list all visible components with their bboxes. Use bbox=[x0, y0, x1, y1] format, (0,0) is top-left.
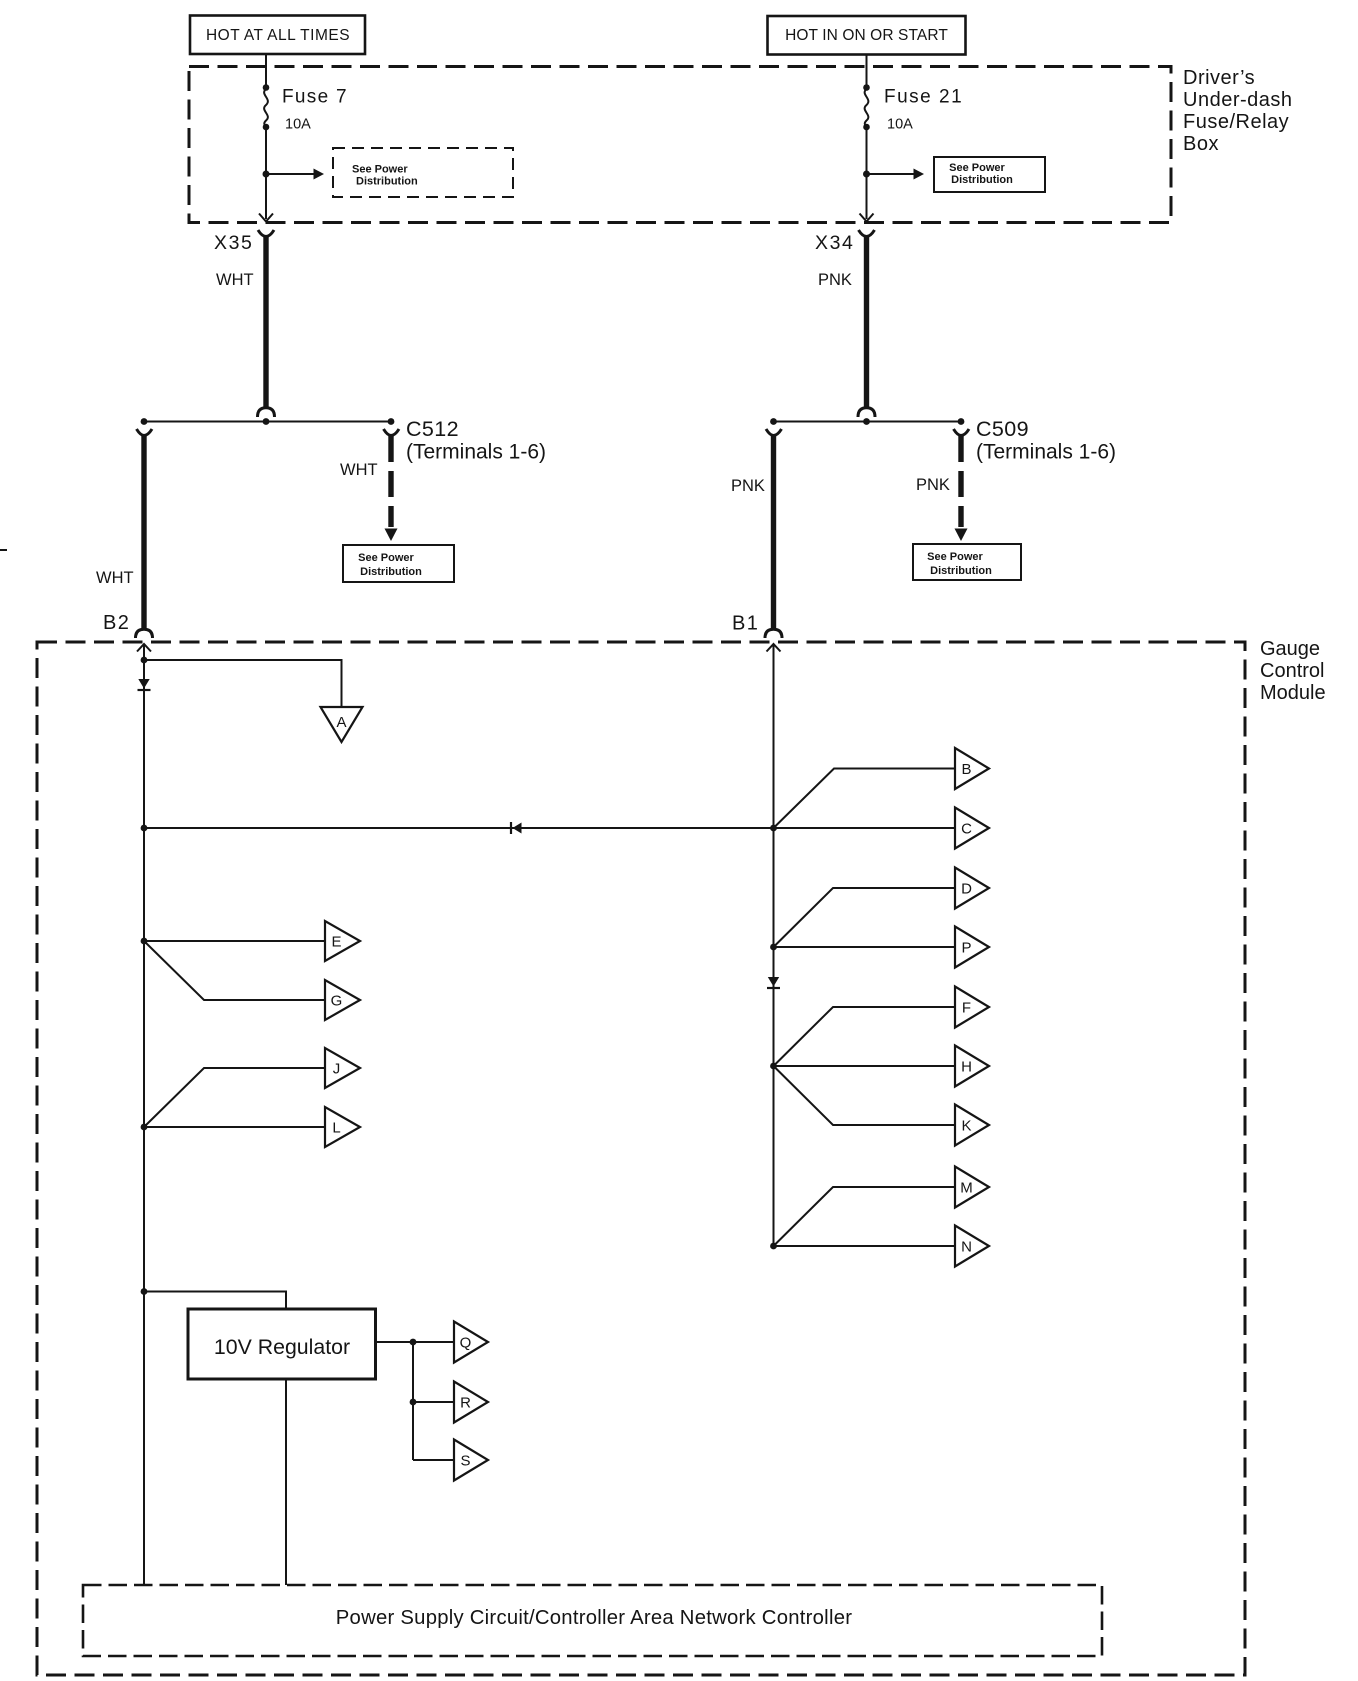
svg-text:N: N bbox=[961, 1239, 972, 1256]
svg-text:PNK: PNK bbox=[916, 476, 950, 494]
terminal G (triangle) bbox=[325, 980, 360, 1020]
svg-text:See Power: See Power bbox=[358, 552, 414, 564]
svg-text:WHT: WHT bbox=[96, 569, 134, 587]
svg-text:Driver’s: Driver’s bbox=[1183, 67, 1255, 89]
connector B2 mate (arc) bbox=[136, 629, 153, 638]
junction left rail / B2 drop bbox=[141, 418, 148, 425]
See Power Distribution box (below C509) bbox=[913, 544, 1021, 580]
terminal A (triangle) bbox=[321, 707, 363, 742]
svg-text:(Terminals 1-6): (Terminals 1-6) bbox=[406, 441, 546, 464]
svg-text:G: G bbox=[331, 993, 343, 1010]
svg-text:Distribution: Distribution bbox=[360, 566, 422, 578]
wire: branch to terminal A bbox=[144, 660, 342, 707]
stray scan mark left margin bbox=[0, 549, 7, 551]
wire: long horizontal net at y=828 bbox=[144, 827, 955, 829]
svg-text:S: S bbox=[460, 1453, 470, 1470]
terminal F (triangle) bbox=[955, 987, 989, 1028]
label Gauge Control Module bbox=[1260, 638, 1326, 704]
junction left rail / C512 bbox=[388, 418, 395, 425]
terminal S (triangle) bbox=[454, 1440, 488, 1481]
svg-text:Distribution: Distribution bbox=[930, 565, 992, 577]
svg-text:F: F bbox=[962, 1000, 971, 1017]
svg-text:Module: Module bbox=[1260, 682, 1326, 704]
arrowhead leaving fuse box at X34 bbox=[860, 214, 874, 222]
junction QRS bus / R bbox=[410, 1399, 417, 1406]
Power Supply Circuit/Controller Area Network Controller (dashed box) bbox=[83, 1585, 1102, 1656]
svg-text:10V Regulator: 10V Regulator bbox=[214, 1335, 350, 1359]
terminal E (triangle) bbox=[325, 921, 360, 961]
wire C509 dashed thick bbox=[958, 436, 963, 527]
connector below rail for B2 wire (Y) bbox=[137, 429, 153, 436]
wire: branch to terminal F bbox=[774, 1007, 956, 1066]
svg-text:J: J bbox=[333, 1061, 341, 1078]
junction B2 bus / J,L bbox=[141, 1124, 148, 1131]
connector X35 mate (arc) bbox=[258, 408, 275, 417]
arrowhead entering module at B2 bbox=[137, 644, 151, 652]
wire: branch to terminal S bbox=[413, 1459, 454, 1461]
wire: branch to terminal B bbox=[774, 769, 956, 829]
label box HOT IN ON OR START bbox=[768, 16, 966, 55]
wire: branch to terminal M bbox=[774, 1187, 956, 1246]
junction B1 bus / M,N bbox=[770, 1243, 777, 1250]
node: fuse 21 top terminal bbox=[863, 84, 870, 91]
diode D2 in long net (pointing left) bbox=[511, 822, 522, 834]
svg-text:C512: C512 bbox=[406, 417, 459, 441]
svg-text:Distribution: Distribution bbox=[356, 176, 418, 188]
connector X35 (female Y) bbox=[258, 230, 274, 237]
junction on fuse 7 output bbox=[263, 171, 270, 178]
svg-text:B2: B2 bbox=[103, 612, 130, 634]
svg-text:D: D bbox=[961, 881, 972, 898]
10V Regulator U1 bbox=[188, 1309, 376, 1379]
svg-text:HOT AT ALL TIMES: HOT AT ALL TIMES bbox=[206, 27, 350, 44]
terminal K (triangle) bbox=[955, 1105, 989, 1146]
svg-text:HOT IN ON OR START: HOT IN ON OR START bbox=[785, 27, 948, 44]
wire: B1 main vertical bus bbox=[773, 644, 775, 1246]
svg-text:PNK: PNK bbox=[818, 271, 852, 289]
svg-text:M: M bbox=[960, 1180, 973, 1197]
svg-text:Under-dash: Under-dash bbox=[1183, 89, 1293, 111]
See Power Distribution box (solid, right) bbox=[934, 157, 1045, 192]
terminal C (triangle) bbox=[955, 808, 989, 849]
arrowhead to See Power Distribution (C509) bbox=[955, 529, 968, 542]
wire: feed from HOT AT ALL TIMES into fuse 7 bbox=[265, 54, 267, 88]
junction right rail / X34 bbox=[863, 418, 870, 425]
junction regulator output / QRS bus bbox=[410, 1339, 417, 1346]
svg-text:Distribution: Distribution bbox=[951, 174, 1013, 186]
fuse F7 element (wavy symbol) bbox=[264, 89, 268, 127]
terminal D (triangle) bbox=[955, 868, 989, 909]
svg-text:P: P bbox=[961, 940, 971, 957]
module box: Gauge Control Module (dashed enclosure) bbox=[37, 642, 1245, 1675]
arrowhead to See Power Distribution (C512) bbox=[385, 529, 398, 542]
svg-text:Fuse 7: Fuse 7 bbox=[282, 87, 348, 108]
arrowhead leaving fuse box at X35 bbox=[259, 214, 273, 222]
wire: fuse 21 output down bbox=[866, 127, 868, 219]
svg-text:10A: 10A bbox=[285, 117, 311, 133]
connector B1 mate (arc) bbox=[765, 629, 782, 638]
svg-text:X34: X34 bbox=[815, 232, 855, 254]
svg-text:E: E bbox=[331, 934, 341, 951]
node: fuse 7 top terminal bbox=[263, 84, 270, 91]
junction right rail / B1 drop bbox=[770, 418, 777, 425]
wire: branch to terminal E bbox=[144, 940, 325, 942]
terminal R (triangle) bbox=[454, 1382, 488, 1423]
terminal J (triangle) bbox=[325, 1048, 360, 1088]
wire PNK to B1 (thick) bbox=[771, 436, 776, 630]
svg-text:(Terminals 1-6): (Terminals 1-6) bbox=[976, 441, 1116, 464]
connector below rail for B1 wire (Y) bbox=[766, 429, 782, 436]
terminal B (triangle) bbox=[955, 748, 989, 789]
wire WHT to B2 (thick) bbox=[141, 436, 146, 630]
diode D3 on B1 bus bbox=[767, 977, 780, 988]
fuse F21 element (wavy symbol) bbox=[865, 89, 869, 127]
wire: regulator ground to power supply circuit bbox=[285, 1379, 287, 1585]
svg-text:Control: Control bbox=[1260, 660, 1324, 682]
svg-text:K: K bbox=[961, 1118, 971, 1135]
See Power Distribution box (dashed, left) bbox=[333, 148, 513, 197]
junction B1 bus / B,C bbox=[770, 825, 777, 832]
wire: regulator output bbox=[376, 1341, 455, 1343]
svg-text:Fuse/Relay: Fuse/Relay bbox=[1183, 111, 1289, 133]
wire: branch to terminal G bbox=[144, 941, 325, 1000]
terminal H (triangle) bbox=[955, 1046, 989, 1087]
wire X35 thick feed bbox=[263, 237, 268, 409]
svg-text:Power Supply Circuit/Controlle: Power Supply Circuit/Controller Area Net… bbox=[336, 1607, 852, 1629]
svg-text:See Power: See Power bbox=[949, 162, 1005, 174]
junction B2 bus / E,G bbox=[141, 938, 148, 945]
label box HOT AT ALL TIMES bbox=[190, 16, 365, 55]
svg-text:H: H bbox=[961, 1059, 972, 1076]
junction long net / B2 bus bbox=[141, 825, 148, 832]
wire: branch to terminal H bbox=[774, 1065, 956, 1067]
wire C512 dashed thick bbox=[388, 436, 393, 527]
terminal M (triangle) bbox=[955, 1167, 989, 1208]
connector X34 mate (arc) bbox=[858, 408, 875, 417]
wire: feed from HOT IN ON OR START into fuse 21 bbox=[866, 55, 868, 88]
node: fuse 21 bottom terminal bbox=[863, 124, 870, 131]
wire: arrow to See Power Distribution (left) bbox=[266, 173, 314, 175]
junction B1 bus / D,P bbox=[770, 944, 777, 951]
wire: branch to terminal D bbox=[774, 888, 956, 947]
wire: QRS vertical bus bbox=[412, 1342, 414, 1460]
svg-text:PNK: PNK bbox=[731, 477, 765, 495]
diode D1 on B2 bus bbox=[138, 679, 151, 690]
connector X34 (female Y) bbox=[859, 230, 875, 237]
svg-text:R: R bbox=[460, 1395, 471, 1412]
wire: branch to terminal J bbox=[144, 1068, 325, 1127]
junction B1 bus / F,H,K bbox=[770, 1063, 777, 1070]
svg-text:10A: 10A bbox=[887, 117, 913, 133]
svg-text:B1: B1 bbox=[732, 613, 759, 635]
svg-text:B: B bbox=[961, 761, 971, 778]
wire: branch to terminal L bbox=[144, 1126, 325, 1128]
terminal L (triangle) bbox=[325, 1107, 360, 1147]
svg-text:WHT: WHT bbox=[340, 461, 378, 479]
See Power Distribution box (below C512) bbox=[343, 545, 454, 582]
wire: left distribution rail bbox=[144, 421, 391, 423]
svg-text:C: C bbox=[961, 821, 972, 838]
svg-text:L: L bbox=[332, 1120, 340, 1137]
wire: fuse 7 output down bbox=[265, 127, 267, 219]
connector below rail C512 (Y) bbox=[384, 429, 400, 436]
wire X34 thick feed bbox=[864, 237, 869, 409]
terminal Q (triangle) bbox=[454, 1322, 488, 1363]
junction on fuse 21 output bbox=[863, 171, 870, 178]
wire: branch to terminal N bbox=[774, 1245, 956, 1247]
svg-text:Q: Q bbox=[460, 1335, 472, 1352]
wire: branch to terminal P bbox=[774, 946, 956, 948]
svg-text:Fuse 21: Fuse 21 bbox=[884, 87, 963, 108]
svg-text:Box: Box bbox=[1183, 133, 1219, 155]
wire: branch to terminal R bbox=[413, 1401, 454, 1403]
svg-text:See Power: See Power bbox=[352, 164, 408, 176]
svg-text:WHT: WHT bbox=[216, 271, 254, 289]
fuse box: Driver's Under-dash Fuse/Relay Box (dashed enclosure) bbox=[189, 67, 1171, 223]
label Driver's Under-dash Fuse/Relay Box bbox=[1183, 67, 1293, 155]
arrowhead entering module at B1 bbox=[767, 644, 781, 652]
junction right rail / C509 bbox=[958, 418, 965, 425]
terminal P (triangle) bbox=[955, 927, 989, 968]
wire: right distribution rail bbox=[774, 421, 962, 423]
svg-text:A: A bbox=[336, 714, 346, 731]
svg-text:See Power: See Power bbox=[927, 551, 983, 563]
svg-text:Gauge: Gauge bbox=[1260, 638, 1320, 660]
junction left rail / X35 bbox=[263, 418, 270, 425]
node: fuse 7 bottom terminal bbox=[263, 124, 270, 131]
junction B2 bus / A branch bbox=[141, 657, 148, 664]
wire: branch to terminal K bbox=[774, 1066, 956, 1125]
junction B2 bus / regulator feed bbox=[141, 1288, 148, 1295]
wire: B2 main vertical bus bbox=[143, 644, 145, 1585]
svg-text:X35: X35 bbox=[214, 232, 254, 254]
terminal N (triangle) bbox=[955, 1226, 989, 1267]
wire: arrow to See Power Distribution (right) bbox=[867, 173, 915, 175]
wire: feed to 10V regulator bbox=[144, 1292, 286, 1310]
svg-text:C509: C509 bbox=[976, 417, 1029, 441]
connector below rail C509 (Y) bbox=[954, 429, 970, 436]
